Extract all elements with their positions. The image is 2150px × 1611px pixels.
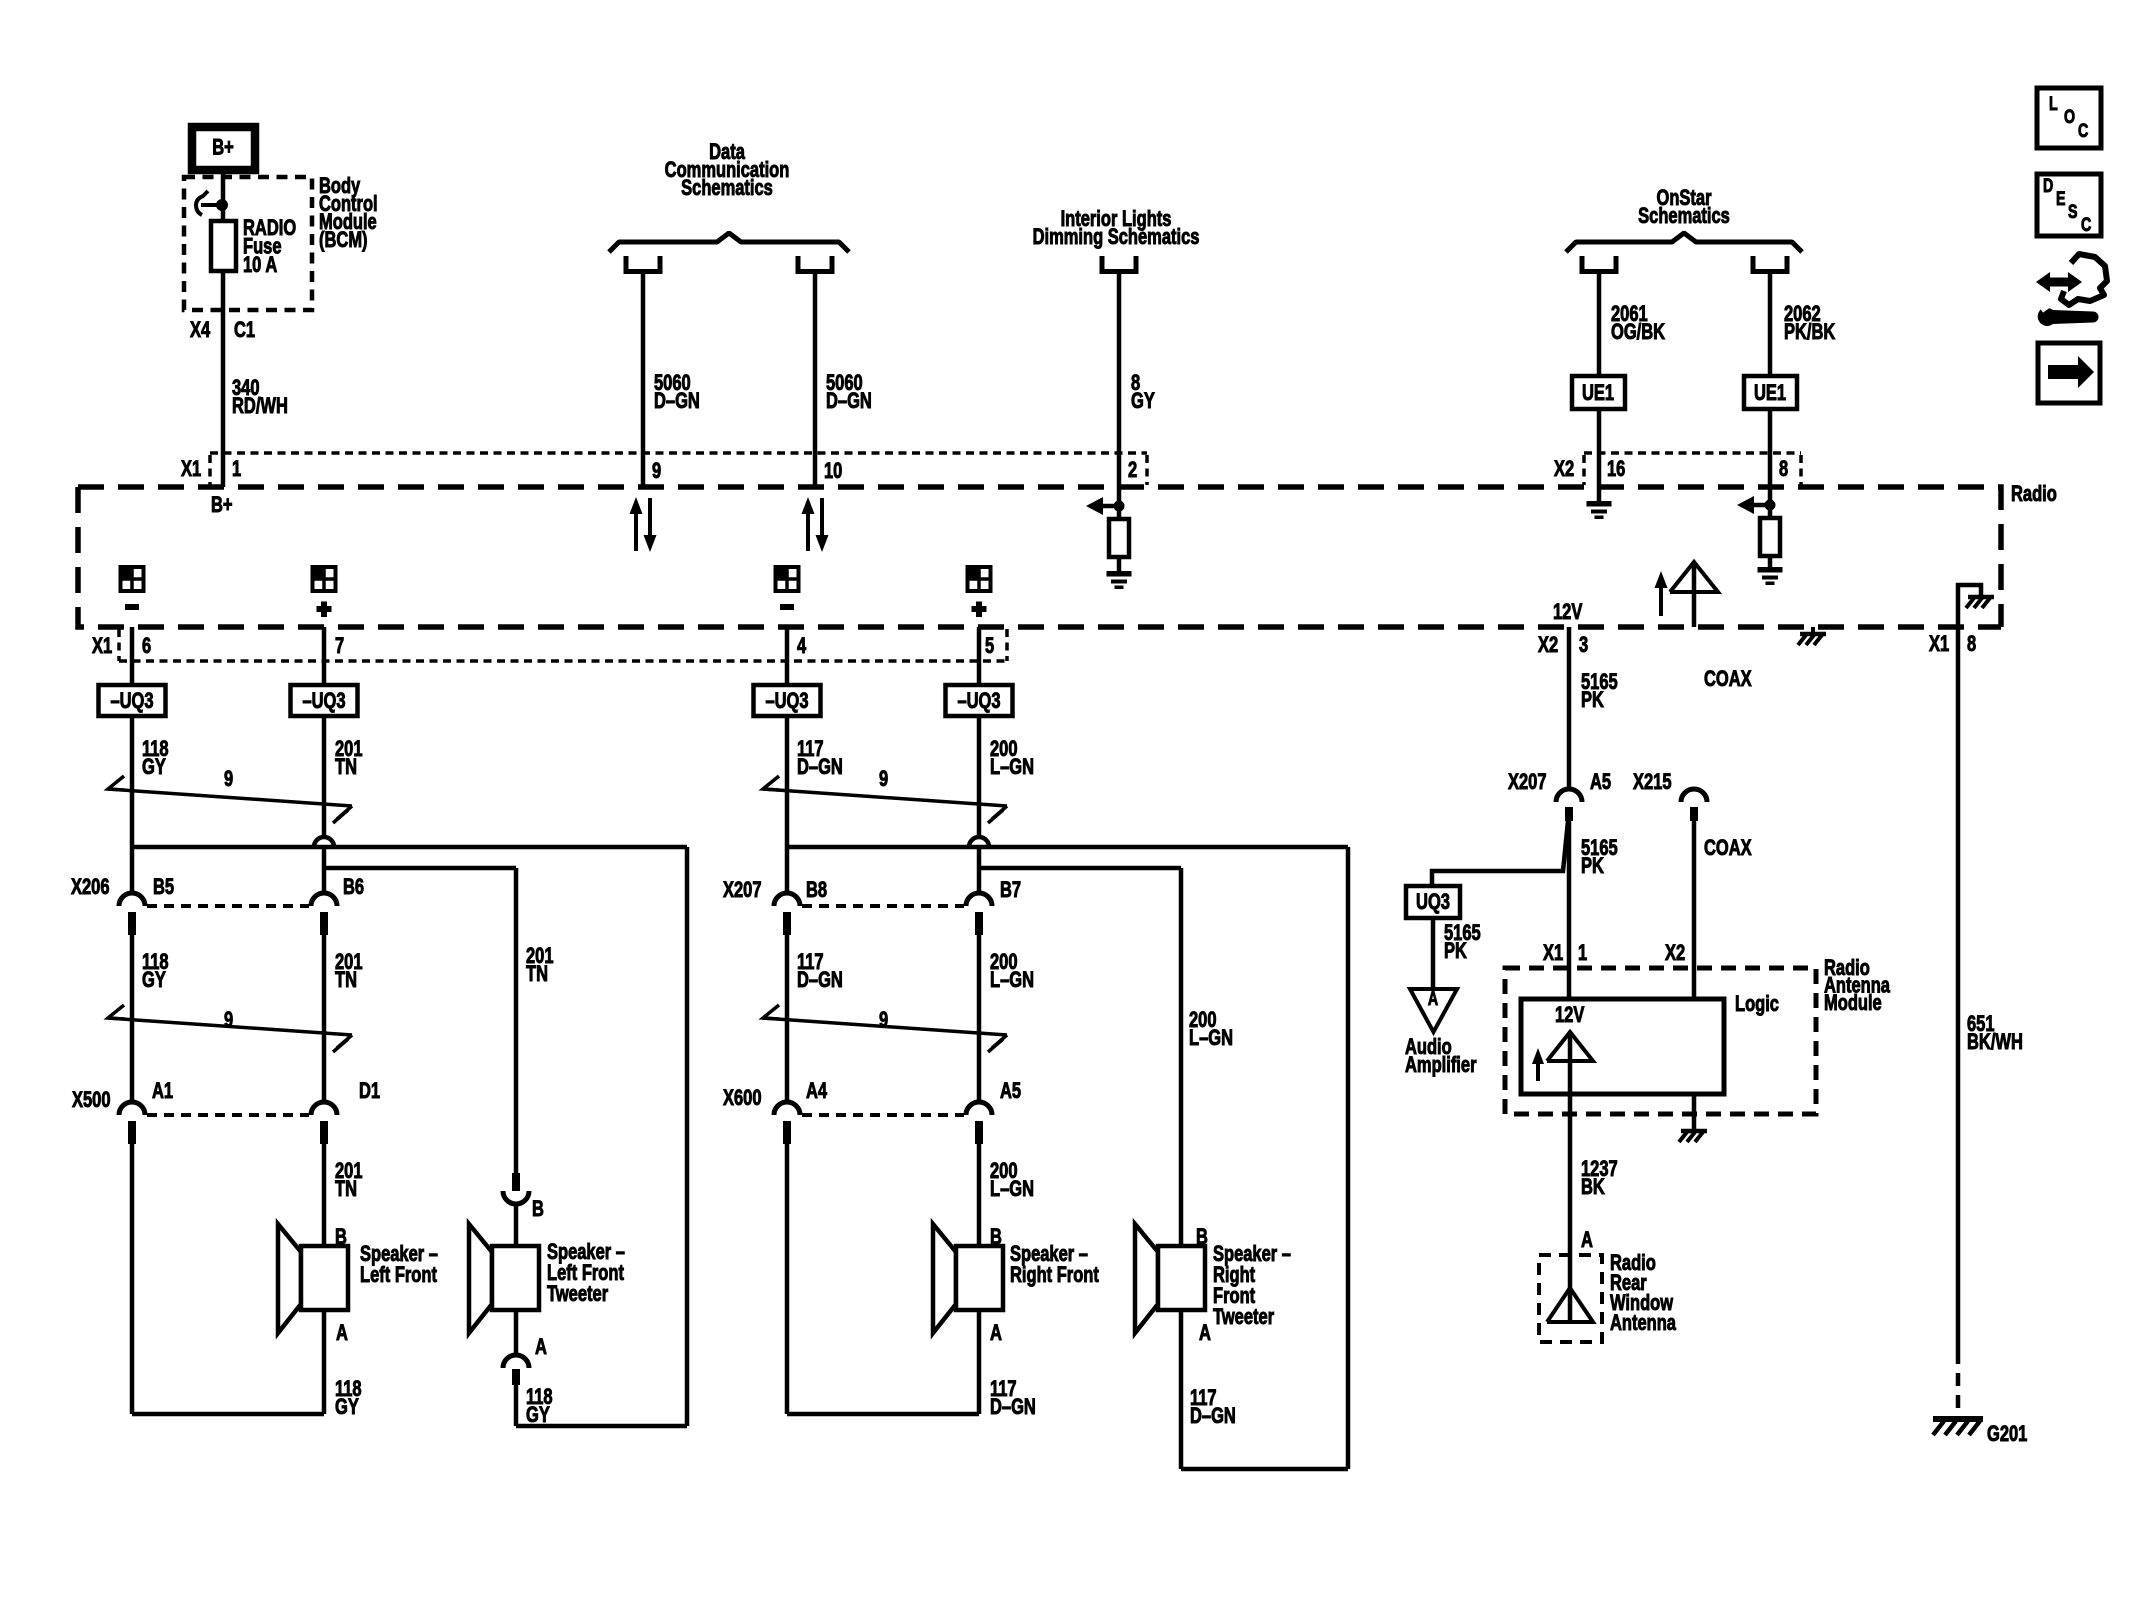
wire LF plus pin7 <box>322 627 327 685</box>
svg-text:A5: A5 <box>1590 770 1611 795</box>
svg-text:X2: X2 <box>1538 633 1558 658</box>
svg-text:Radio: Radio <box>2011 482 2057 507</box>
terminal B tweeter RF <box>1196 1225 1208 1250</box>
wire 201 TN upper <box>322 716 327 893</box>
wire 117 D-GN middle <box>785 935 790 1102</box>
svg-text:COAX: COAX <box>1704 836 1752 861</box>
input arrow pin 8 <box>1737 496 1776 514</box>
label 200 L-GN middle <box>990 950 1034 993</box>
node B+ inside radio <box>211 493 233 518</box>
connector X206 B6 <box>311 893 337 935</box>
svg-text:UE1: UE1 <box>1582 381 1614 406</box>
wire branch RF+ to tweeter <box>979 868 1181 1246</box>
svg-text:12V: 12V <box>1555 1003 1584 1028</box>
svg-text:7: 7 <box>335 634 344 659</box>
icon LOC <box>2037 88 2101 148</box>
label Radio Antenna Module <box>1824 956 1890 1016</box>
wire 2061 OG/BK <box>1597 274 1602 501</box>
twisted reference 9 lower right <box>763 1005 1007 1052</box>
label wire 5060 D-GN right <box>826 371 872 414</box>
logic block <box>1521 999 1724 1094</box>
wire 2062 PK/BK <box>1768 274 1773 518</box>
wire UQ3 to amplifier <box>1431 918 1436 989</box>
svg-text:–UQ3: –UQ3 <box>302 689 345 714</box>
wire resistor to ground <box>1117 557 1122 571</box>
svg-text:A: A <box>336 1321 348 1346</box>
label wire 340 RD/WH <box>232 376 288 419</box>
svg-text:A: A <box>990 1321 1002 1346</box>
label 201 TN tweeter <box>526 944 554 987</box>
connector X215 coax <box>1681 789 1707 821</box>
icon DESC <box>2037 174 2101 236</box>
brace data communication <box>609 233 849 252</box>
svg-text:B5: B5 <box>153 875 174 900</box>
connector X2 radio top dotted strip <box>1584 453 1801 485</box>
svg-text:Logic: Logic <box>1735 992 1779 1017</box>
off-page pin data 9 <box>626 256 660 272</box>
svg-text:Right Front: Right Front <box>1010 1263 1099 1288</box>
label 200 L-GN tweeter <box>1189 1008 1233 1051</box>
svg-text:A: A <box>535 1335 547 1360</box>
connector X4 pin C1 labels <box>190 318 255 343</box>
label 201 TN upper <box>335 737 363 780</box>
svg-text:C1: C1 <box>234 318 255 343</box>
twisted reference 9 upper right <box>763 767 1007 823</box>
svg-text:PK/BK: PK/BK <box>1784 320 1835 345</box>
label Radio Rear Window Antenna <box>1610 1251 1676 1336</box>
svg-text:D–GN: D–GN <box>654 389 700 414</box>
svg-text:TN: TN <box>335 1177 357 1202</box>
wire 651 BK/WH <box>1956 627 1961 1351</box>
wire 5165 PK to antenna module <box>1567 820 1572 999</box>
brace OnStar <box>1566 233 1802 252</box>
connector X206 labels <box>71 875 364 900</box>
label Speaker Right Front <box>1010 1242 1099 1288</box>
option box -UQ3 pin4 <box>754 685 821 716</box>
svg-text:D–GN: D–GN <box>1190 1404 1236 1429</box>
wire 5060 D-GN right <box>813 274 818 487</box>
option box UQ3 <box>1406 886 1460 918</box>
connector X600 A5 <box>966 1102 992 1144</box>
svg-text:PK: PK <box>1581 854 1604 879</box>
arrow up logic <box>1532 1048 1544 1081</box>
svg-text:2: 2 <box>1128 458 1137 483</box>
speaker Right Front Tweeter <box>1135 1224 1205 1333</box>
wire 201 TN to speaker B <box>322 1144 327 1246</box>
dimming input arrow pin 2 <box>1086 497 1125 515</box>
svg-text:(BCM): (BCM) <box>319 228 368 253</box>
label 118 GY tweeter <box>526 1385 553 1428</box>
svg-text:X207: X207 <box>1508 770 1547 795</box>
pin 6 label <box>142 634 151 659</box>
svg-text:BK/WH: BK/WH <box>1967 1030 2023 1055</box>
svg-text:UE1: UE1 <box>1754 381 1786 406</box>
label wire 5060 D-GN left <box>654 371 700 414</box>
terminal A tweeter RF <box>1199 1321 1211 1346</box>
svg-text:10 A: 10 A <box>243 253 277 278</box>
terminal B speaker RF <box>990 1225 1002 1250</box>
pin 5 label <box>985 634 994 659</box>
label OnStar Schematics <box>1638 186 1730 229</box>
svg-text:X1: X1 <box>92 634 112 659</box>
wire 200 L-GN upper <box>977 716 982 893</box>
wire tweeter RF loop <box>1181 847 1348 1469</box>
svg-text:X207: X207 <box>723 878 762 903</box>
wire 8 GY <box>1117 274 1122 519</box>
chassis ground logic <box>1679 1131 1707 1142</box>
amplifier input triangle A <box>1410 988 1457 1032</box>
power symbol B+ <box>192 127 255 170</box>
svg-text:–UQ3: –UQ3 <box>765 689 808 714</box>
svg-text:3: 3 <box>1579 633 1588 658</box>
connector inline tweeter B <box>503 1173 529 1204</box>
connector X1 pin 1 labels antenna module <box>1543 941 1587 966</box>
label G201 <box>1987 1422 2028 1447</box>
ground dimming resistor <box>1107 571 1132 589</box>
connector X600 A4 <box>774 1102 964 1144</box>
connector X2 label antenna module <box>1665 941 1685 966</box>
svg-text:E: E <box>2056 188 2066 209</box>
svg-text:Dimming Schematics: Dimming Schematics <box>1033 225 1200 250</box>
label COAX upper <box>1704 667 1752 692</box>
svg-text:X2: X2 <box>1665 941 1685 966</box>
wire 651 dashed to ground <box>1956 1351 1961 1416</box>
svg-text:L: L <box>2049 93 2058 114</box>
wire fuse to connector X4 C1 <box>221 271 226 487</box>
label Audio Amplifier <box>1405 1035 1477 1078</box>
svg-text:B7: B7 <box>1000 878 1021 903</box>
label Logic <box>1735 992 1779 1017</box>
antenna symbol radio 12V feed <box>1670 562 1718 627</box>
off-page pin data 10 <box>798 256 832 272</box>
label 117 D-GN upper <box>797 737 843 780</box>
pin 10 label <box>824 459 843 484</box>
svg-text:1: 1 <box>1578 941 1587 966</box>
wire LF minus pin6 <box>130 627 135 685</box>
svg-text:COAX: COAX <box>1704 667 1752 692</box>
svg-text:GY: GY <box>1131 389 1155 414</box>
pin 8 label OnStar <box>1779 457 1788 482</box>
connector X207 A5 labels <box>1508 770 1672 795</box>
connector X207 labels right <box>723 878 1021 903</box>
svg-text:X1: X1 <box>1929 632 1949 657</box>
label Speaker Right Front Tweeter <box>1213 1242 1291 1330</box>
icon forward arrow <box>2038 343 2100 403</box>
pin 16 label <box>1607 457 1626 482</box>
wire RF minus pin4 <box>785 627 790 685</box>
module Radio Antenna Module dashed box <box>1505 968 1816 1114</box>
fuse RADIO 10 A <box>211 221 236 271</box>
twisted reference 9 lower left <box>108 1005 352 1052</box>
connector X1 pin 8 labels <box>1929 632 1976 657</box>
svg-text:PK: PK <box>1444 939 1467 964</box>
connector X500 A1 <box>119 1102 309 1144</box>
off-page pin OnStar 16 <box>1582 256 1616 272</box>
wire tweeter B to speaker <box>514 1204 519 1246</box>
svg-text:Amplifier: Amplifier <box>1405 1053 1477 1078</box>
wire branch LF+ to tweeter <box>324 868 516 1173</box>
wire tweeter A lower <box>514 1310 519 1355</box>
svg-text:9: 9 <box>879 1008 888 1033</box>
terminal A speaker RF <box>990 1321 1002 1346</box>
label 12V pin 3 <box>1553 600 1582 625</box>
label Radio <box>2011 482 2057 507</box>
svg-text:L–GN: L–GN <box>990 1177 1034 1202</box>
ground OnStar resistor <box>1758 567 1783 585</box>
svg-text:–UQ3: –UQ3 <box>110 689 153 714</box>
wire 117 D-GN upper <box>785 716 790 893</box>
svg-text:X1: X1 <box>1543 941 1563 966</box>
antenna symbol rear window <box>1547 1255 1593 1322</box>
svg-text:X600: X600 <box>723 1086 762 1111</box>
connector inline tweeter A <box>503 1355 529 1385</box>
wire branch to UQ3 amplifier <box>1432 821 1568 886</box>
svg-text:C: C <box>2081 214 2091 235</box>
resistor OnStar audio <box>1760 518 1780 556</box>
wire resistor to ground OnStar <box>1768 556 1773 567</box>
wire RF plus pin5 <box>977 627 982 685</box>
label wire 8 GY <box>1131 371 1155 414</box>
label 5165 PK upper <box>1581 670 1618 713</box>
svg-text:OG/BK: OG/BK <box>1611 320 1665 345</box>
svg-text:9: 9 <box>652 459 661 484</box>
module BCM dashed box <box>184 177 312 310</box>
svg-text:B+: B+ <box>211 493 233 518</box>
svg-text:UQ3: UQ3 <box>1416 890 1450 915</box>
ground G201 <box>1933 1419 1983 1435</box>
ground hook radio top right <box>1958 585 1994 627</box>
speaker output symbol RF minus <box>775 566 799 610</box>
label 12V logic <box>1555 1003 1584 1028</box>
chassis ground radio case <box>1798 627 1826 645</box>
connector X207 B8 <box>774 893 964 935</box>
svg-text:1: 1 <box>232 457 241 482</box>
svg-text:16: 16 <box>1607 457 1626 482</box>
label 201 TN lower <box>335 1159 363 1202</box>
svg-text:6: 6 <box>142 634 151 659</box>
connector X207 A5 <box>1556 789 1582 821</box>
wire 118 GY middle <box>130 935 135 1102</box>
wire tweeter loop <box>516 847 687 1426</box>
svg-text:RD/WH: RD/WH <box>232 394 288 419</box>
label 200 L-GN lower <box>990 1159 1034 1202</box>
svg-text:B: B <box>532 1197 544 1222</box>
wire hop at RF plus <box>969 837 989 847</box>
svg-text:10: 10 <box>824 459 843 484</box>
wire loop bottom RF <box>787 1412 979 1417</box>
connector X1 label bottom <box>92 634 112 659</box>
connector X2 pin 3 labels <box>1538 633 1588 658</box>
svg-text:D–GN: D–GN <box>797 755 843 780</box>
fuse element hook <box>196 191 228 215</box>
svg-text:9: 9 <box>879 767 888 792</box>
ground pin 16 <box>1587 501 1612 519</box>
wire 118 GY upper <box>130 716 135 893</box>
svg-text:A1: A1 <box>152 1079 173 1104</box>
svg-text:Left Front: Left Front <box>360 1263 437 1288</box>
terminal B tweeter LF <box>532 1197 544 1222</box>
svg-text:D1: D1 <box>359 1079 380 1104</box>
label 118 GY middle <box>142 950 169 993</box>
label wire 2061 OG/BK <box>1611 302 1665 345</box>
wire 118 GY speaker A <box>322 1310 327 1414</box>
svg-text:L–GN: L–GN <box>990 755 1034 780</box>
label 1237 BK <box>1581 1157 1618 1200</box>
terminal A speaker LF <box>336 1321 348 1346</box>
svg-text:X2: X2 <box>1554 457 1574 482</box>
speaker Left Front Tweeter <box>469 1224 539 1333</box>
label RADIO Fuse 10 A <box>243 216 296 278</box>
svg-text:Schematics: Schematics <box>681 176 773 201</box>
label 118 GY upper <box>142 737 169 780</box>
svg-text:8: 8 <box>1967 632 1976 657</box>
pin 2 label <box>1128 458 1137 483</box>
speaker Right Front <box>933 1224 1003 1333</box>
label 5165 PK amp <box>1444 921 1481 964</box>
svg-text:TN: TN <box>526 962 548 987</box>
speaker output symbol RF plus <box>967 566 991 617</box>
svg-text:D: D <box>2043 175 2053 196</box>
label 200 L-GN upper <box>990 737 1034 780</box>
speaker output symbol LF plus <box>312 566 336 617</box>
svg-text:X215: X215 <box>1633 770 1672 795</box>
label 117 D-GN middle <box>797 950 843 993</box>
svg-text:Module: Module <box>1824 991 1882 1016</box>
option box UE1 left <box>1572 376 1625 409</box>
wire 200 L-GN to speaker B <box>977 1144 982 1246</box>
antenna symbol logic <box>1547 1032 1593 1094</box>
svg-text:B+: B+ <box>212 135 234 160</box>
resistor dimming <box>1109 519 1129 557</box>
label Data Communication Schematics <box>665 140 790 201</box>
connector X500 D1 <box>311 1102 337 1144</box>
option box -UQ3 pin6 <box>99 685 166 716</box>
svg-text:Tweeter: Tweeter <box>1213 1305 1274 1330</box>
connector X207 B7 <box>966 893 992 935</box>
label 117 D-GN tweeter <box>1190 1386 1236 1429</box>
pin 4 label <box>797 634 806 659</box>
svg-text:9: 9 <box>224 767 233 792</box>
connector X1 label <box>181 457 201 482</box>
svg-text:Antenna: Antenna <box>1610 1311 1676 1336</box>
icon wiring repair <box>2036 254 2107 326</box>
svg-text:A4: A4 <box>806 1079 827 1104</box>
pin 7 label <box>335 634 344 659</box>
off-page pin dimming <box>1102 256 1136 272</box>
speaker output symbol LF minus <box>120 566 144 610</box>
terminal B speaker LF <box>335 1225 347 1250</box>
svg-text:9: 9 <box>224 1008 233 1033</box>
serial data arrows pin 9 <box>630 497 657 552</box>
label wire 2062 PK/BK <box>1784 302 1835 345</box>
svg-text:GY: GY <box>142 755 166 780</box>
serial data arrows pin 10 <box>802 497 829 552</box>
svg-text:A: A <box>1199 1321 1211 1346</box>
svg-text:4: 4 <box>797 634 806 659</box>
terminal A rear antenna <box>1581 1228 1593 1253</box>
svg-text:B6: B6 <box>343 875 364 900</box>
label 651 BK/WH <box>1967 1012 2023 1055</box>
label COAX lower <box>1704 836 1752 861</box>
svg-text:Tweeter: Tweeter <box>547 1282 608 1307</box>
wire hop at LF plus <box>314 837 334 847</box>
option box UE1 right <box>1744 376 1797 409</box>
svg-text:X500: X500 <box>72 1088 111 1113</box>
pin 1 label <box>232 457 241 482</box>
wire 1237 BK <box>1568 1094 1573 1255</box>
speaker Left Front <box>278 1224 348 1333</box>
svg-text:BK: BK <box>1581 1175 1605 1200</box>
svg-text:TN: TN <box>335 755 357 780</box>
wire branch LF- to tweeter loop <box>132 845 687 850</box>
connector X600 labels <box>723 1079 1021 1111</box>
wire 5060 D-GN left <box>641 274 646 487</box>
wire branch RF- to tweeter loop <box>787 845 1348 850</box>
wire 117 D-GN to loop <box>785 1144 790 1414</box>
connector X1 radio top dotted strip <box>210 453 1147 485</box>
wire 118 GY to speaker A loop <box>130 1144 135 1414</box>
svg-text:A5: A5 <box>1000 1079 1021 1104</box>
svg-text:PK: PK <box>1581 688 1604 713</box>
wire 200 L-GN middle <box>977 935 982 1102</box>
label 5165 PK middle <box>1581 836 1618 879</box>
svg-text:C: C <box>2078 120 2088 141</box>
connector X2 label <box>1554 457 1574 482</box>
svg-text:5: 5 <box>985 634 994 659</box>
svg-text:GY: GY <box>335 1395 359 1420</box>
wire COAX to antenna module <box>1692 820 1697 999</box>
radio module dashed outline <box>78 487 2001 627</box>
svg-text:G201: G201 <box>1987 1422 2028 1447</box>
module Radio Rear Window Antenna dashed box <box>1539 1255 1602 1342</box>
svg-text:L–GN: L–GN <box>990 968 1034 993</box>
wire 5165 PK pin3 <box>1567 627 1572 789</box>
svg-text:S: S <box>2068 201 2078 222</box>
label Speaker Left Front Tweeter <box>547 1240 625 1307</box>
svg-text:D–GN: D–GN <box>826 389 872 414</box>
wire B+ to fuse <box>221 168 226 221</box>
label Speaker Left Front <box>360 1242 438 1288</box>
terminal A tweeter LF <box>535 1335 547 1360</box>
wire loop bottom LF <box>132 1412 324 1417</box>
wire logic ground <box>1692 1094 1697 1130</box>
svg-text:B8: B8 <box>806 878 827 903</box>
svg-text:GY: GY <box>142 968 166 993</box>
svg-text:X4: X4 <box>190 318 210 343</box>
label 201 TN middle <box>335 950 363 993</box>
svg-text:X1: X1 <box>181 457 201 482</box>
svg-text:Schematics: Schematics <box>1638 204 1730 229</box>
connector X206 B5 <box>119 893 309 935</box>
svg-text:D–GN: D–GN <box>990 1395 1036 1420</box>
svg-text:D–GN: D–GN <box>797 968 843 993</box>
arrow up antenna feed <box>1655 571 1668 616</box>
pin 9 label <box>652 459 661 484</box>
off-page pin OnStar 8 <box>1753 256 1787 272</box>
svg-text:TN: TN <box>335 968 357 993</box>
svg-text:–UQ3: –UQ3 <box>957 689 1000 714</box>
label Interior Lights Dimming Schematics <box>1033 207 1200 250</box>
wire 117 D-GN speaker A <box>977 1310 982 1414</box>
svg-text:X206: X206 <box>71 875 110 900</box>
connector X500 labels <box>72 1079 380 1113</box>
option box -UQ3 pin5 <box>946 685 1013 716</box>
label 118 GY bottom <box>335 1377 362 1420</box>
svg-text:O: O <box>2064 106 2075 127</box>
twisted reference 9 upper left <box>108 767 352 823</box>
svg-text:L–GN: L–GN <box>1189 1026 1233 1051</box>
svg-text:A: A <box>1581 1228 1593 1253</box>
